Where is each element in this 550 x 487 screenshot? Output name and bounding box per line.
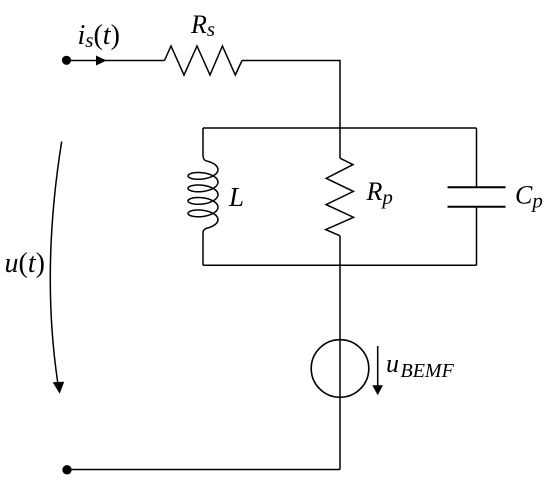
svg-text:u(t): u(t) [5, 248, 45, 279]
svg-text:is(t): is(t) [78, 20, 120, 52]
svg-text:L: L [228, 182, 244, 212]
